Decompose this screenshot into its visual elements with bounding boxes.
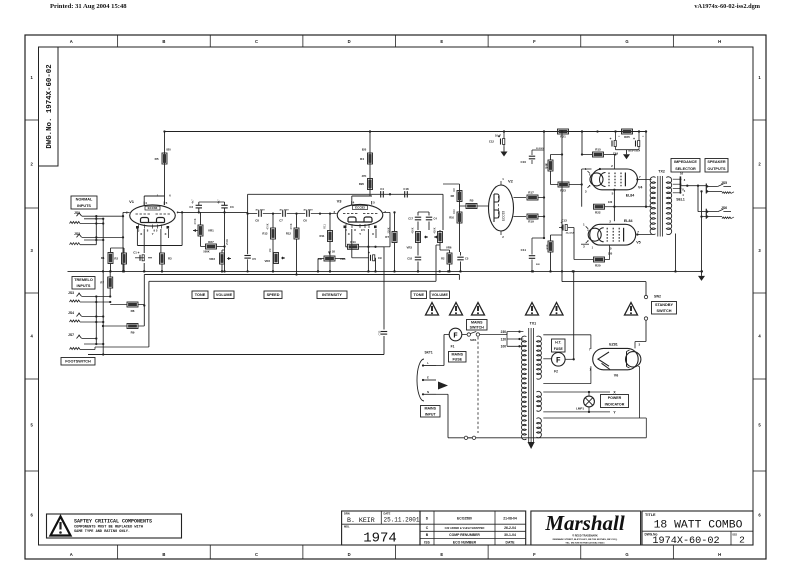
capacitor C9 (352, 251, 382, 272)
jack JS5 (706, 181, 734, 194)
speaker outputs label (705, 159, 728, 173)
wire V5 grid coupling (568, 228, 593, 260)
svg-text:V6: V6 (614, 374, 618, 378)
svg-text:COMPONENTS MUST BE REPLACED WI: COMPONENTS MUST BE REPLACED WITH (74, 526, 143, 530)
svg-text:R4: R4 (360, 157, 364, 161)
svg-text:C13: C13 (561, 219, 567, 223)
resistor R4 (360, 153, 372, 164)
resistor R11 (320, 212, 333, 272)
Marshall logo box (531, 511, 641, 545)
svg-text:250K: 250K (225, 239, 229, 245)
svg-text:SW2: SW2 (654, 295, 661, 299)
svg-text:E: E (427, 376, 429, 380)
resistor R5b grid stopper (460, 199, 489, 209)
svg-text:H.T.: H.T. (555, 340, 561, 344)
frame column reference letters (70, 35, 721, 559)
svg-text:470K: 470K (193, 218, 197, 224)
svg-text:R2: R2 (114, 257, 118, 261)
component value labels (157, 134, 685, 256)
svg-text:50V: 50V (536, 264, 540, 266)
wire secondary bus (143, 275, 459, 327)
mains input label (421, 406, 441, 418)
svg-text:SKT1: SKT1 (425, 351, 433, 355)
svg-text:D: D (348, 552, 351, 557)
svg-text:DATE: DATE (506, 540, 516, 544)
svg-text:C12: C12 (489, 140, 495, 144)
svg-text:INPUTS: INPUTS (77, 204, 91, 208)
wire HT to standby (562, 281, 646, 283)
svg-text:Y: Y (359, 232, 361, 236)
V1 cathode network wires (137, 211, 183, 253)
svg-text:DRN: DRN (344, 511, 350, 515)
svg-text:H: H (718, 39, 721, 44)
wire HT B+ rail (164, 131, 646, 133)
svg-text:R15: R15 (595, 148, 601, 152)
svg-text:R18: R18 (545, 163, 549, 168)
input bus wires (95, 212, 124, 355)
svg-text:E: E (440, 552, 443, 557)
svg-text:VR3: VR3 (407, 246, 413, 250)
valve V5 (583, 219, 641, 251)
resistor R13 (262, 214, 275, 273)
svg-text:G: G (625, 552, 628, 557)
svg-text:+: + (137, 251, 139, 255)
svg-text:100: 100 (501, 345, 507, 349)
svg-text:V5: V5 (636, 241, 640, 245)
wire ground bus (68, 270, 702, 272)
svg-text:JS7: JS7 (68, 333, 74, 337)
svg-text:EL84: EL84 (624, 219, 633, 223)
wire V4 plate to TX2 (636, 178, 651, 180)
svg-text:ECO2580: ECO2580 (457, 517, 472, 521)
resistor R25 (622, 129, 633, 139)
wire driver vertical (561, 130, 563, 281)
resistor R1 (101, 253, 113, 264)
svg-text:VR4: VR4 (340, 257, 346, 261)
pot VR1 (193, 212, 214, 246)
svg-text:X: X (372, 232, 374, 236)
svg-text:C4: C4 (380, 187, 384, 191)
wire screen rail (613, 189, 651, 222)
svg-text:STANDBY: STANDBY (655, 303, 674, 307)
impedance selector SEL1 (673, 172, 686, 202)
power indicator lamp LMP1 (576, 392, 594, 412)
frame row reference numbers (25, 75, 766, 518)
normal inputs label (71, 196, 97, 209)
resistor R24 (440, 250, 452, 273)
warning triangle 4 (526, 303, 539, 316)
svg-text:INPUTS: INPUTS (77, 284, 91, 288)
svg-text:30v 350V: 30v 350V (279, 209, 289, 211)
wire HT centre tap return (573, 270, 575, 360)
capacitor C11 (521, 238, 544, 273)
wire HT dropper (543, 130, 545, 239)
svg-text:C17: C17 (408, 217, 413, 221)
pot VR4 (317, 252, 346, 273)
svg-text:470K: 470K (289, 223, 293, 229)
valve V4 (585, 164, 643, 198)
wire TX1 CT to F2 (543, 358, 573, 361)
svg-text:H: H (718, 552, 721, 557)
capacitor C14 (609, 130, 616, 149)
svg-text:R19: R19 (528, 220, 534, 224)
resistor R23 (551, 182, 576, 193)
svg-text:SEL1: SEL1 (676, 198, 685, 202)
volume pot label (214, 291, 234, 299)
svg-text:DENMARK STREET, BLETCHLEY, MIL: DENMARK STREET, BLETCHLEY, MILTON KEYNES… (553, 538, 618, 541)
svg-text:450K: 450K (411, 227, 415, 233)
wire HT long vertical (581, 132, 583, 282)
svg-text:NORMAL: NORMAL (76, 198, 93, 202)
svg-text:1974X-60-02: 1974X-60-02 (652, 536, 719, 547)
svg-text:C5: C5 (252, 257, 256, 261)
svg-text:MAINS: MAINS (424, 407, 436, 411)
svg-text:ISS: ISS (733, 532, 738, 536)
pot VR3 (265, 253, 285, 264)
svg-text:INPUT: INPUT (425, 412, 437, 416)
svg-text:120: 120 (501, 337, 507, 341)
fuse F1 (444, 328, 462, 348)
capacitor C10 (520, 148, 544, 164)
jack JS2 (70, 232, 124, 245)
switch SW1 linkage (477, 337, 479, 433)
capacitor C8 (255, 209, 265, 222)
svg-text:VR6: VR6 (446, 246, 452, 250)
svg-text:9 5: 9 5 (154, 229, 158, 233)
svg-text:C5: C5 (465, 257, 469, 261)
mains switch label (467, 320, 488, 331)
svg-text:SW1: SW1 (470, 338, 477, 342)
power indicator label (601, 395, 629, 408)
svg-text:A: A (70, 552, 73, 557)
resistor R9 (102, 324, 144, 335)
svg-text:+: + (609, 137, 611, 141)
wire V4 grid (575, 168, 601, 207)
svg-text:ECC83: ECC83 (502, 211, 506, 222)
svg-text:R23: R23 (560, 189, 566, 193)
svg-text:R8: R8 (452, 188, 456, 192)
svg-text:R2: R2 (441, 257, 445, 261)
V1 plate coupling wires (177, 194, 390, 254)
svg-text:ECC83: ECC83 (355, 206, 365, 210)
jack JS4 (68, 311, 103, 322)
oscillator feed wires (443, 184, 460, 252)
warning triangle 2 (450, 303, 463, 316)
svg-text:SWITCH: SWITCH (657, 309, 672, 313)
svg-text:F2: F2 (554, 370, 558, 374)
svg-text:1M: 1M (268, 249, 272, 253)
svg-text:VOLUME: VOLUME (216, 293, 233, 297)
svg-text:47K: 47K (362, 174, 367, 178)
svg-text:SELECTOR: SELECTOR (675, 167, 696, 171)
svg-text:R7: R7 (385, 235, 389, 239)
resistor R22 (594, 204, 616, 214)
svg-text:F: F (453, 332, 458, 340)
transformer TX1 (522, 322, 542, 450)
valve V6 rectifier (589, 342, 641, 377)
svg-text:30 300V: 30 300V (536, 148, 545, 150)
svg-text:V4: V4 (638, 185, 642, 189)
svg-text:100uF 100uF: 100uF 100uF (628, 151, 641, 153)
mains fuse label (449, 352, 467, 363)
capacitor C14a (418, 212, 437, 230)
valve V1 (126, 199, 179, 233)
transformer TX2 (650, 170, 672, 237)
svg-text:B. KEIR: B. KEIR (347, 517, 375, 524)
capacitor C12 (489, 130, 508, 156)
jack JS6 (706, 206, 734, 219)
intensity pot label (317, 291, 347, 299)
mains wires (436, 335, 646, 438)
svg-text:F: F (533, 552, 536, 557)
wire V3 plate supply (352, 130, 372, 205)
wire TX1 HT top to anode (543, 335, 591, 349)
svg-text:TONE: TONE (195, 293, 206, 297)
resistor R27 (201, 240, 226, 249)
svg-text:SAFTEY CRITICAL COMPONENTS: SAFTEY CRITICAL COMPONENTS (74, 518, 152, 524)
svg-text:C1: C1 (133, 251, 137, 255)
tremolo input bus wires (95, 295, 111, 345)
svg-text:TITLE: TITLE (645, 513, 656, 517)
title box (642, 511, 753, 547)
svg-text:R12: R12 (286, 232, 292, 236)
tone pot label (192, 291, 208, 299)
speaker ground (698, 271, 705, 281)
svg-text:D: D (348, 39, 351, 44)
svg-text:R20: R20 (359, 182, 365, 186)
svg-text:INDICATOR: INDICATOR (605, 403, 625, 407)
svg-text:VOLUME: VOLUME (432, 293, 449, 297)
svg-text:VR2: VR2 (209, 257, 215, 261)
wire jack commons (698, 186, 707, 273)
svg-text:FOOTSWITCH: FOOTSWITCH (65, 360, 91, 364)
svg-text:EL84: EL84 (626, 194, 635, 198)
svg-text:VR1: VR1 (208, 229, 214, 233)
resistor R15 (581, 130, 616, 157)
svg-text:30-1-04: 30-1-04 (504, 533, 516, 537)
svg-text:N: N (427, 390, 429, 394)
resistor R18 (544, 155, 562, 185)
svg-text:F: F (556, 356, 561, 365)
svg-text:SPEAKER: SPEAKER (707, 160, 726, 164)
svg-text:25.11.2001: 25.11.2001 (384, 517, 420, 524)
valve V2 (489, 177, 514, 239)
svg-text:B: B (162, 552, 165, 557)
svg-text:LMP1: LMP1 (576, 407, 584, 411)
svg-text:470K: 470K (266, 223, 270, 229)
svg-text:R1: R1 (101, 256, 105, 260)
capacitor C5b (244, 256, 256, 273)
svg-text:2: 2 (739, 535, 745, 546)
svg-text:R21: R21 (560, 135, 566, 139)
svg-text:C22: C22 (378, 330, 382, 335)
wire V1 grid (123, 211, 130, 213)
svg-text:R3: R3 (168, 257, 172, 261)
footswitch label (61, 358, 95, 366)
svg-text:JS3: JS3 (68, 291, 74, 295)
capacitor C1 (133, 251, 144, 261)
capacitor C5 (457, 252, 469, 273)
svg-text:FUSE: FUSE (554, 347, 564, 351)
svg-text:A: A (70, 39, 73, 44)
header filename (694, 3, 760, 10)
svg-text:JS4: JS4 (68, 311, 74, 315)
svg-text:® REGD TRADEMARK: ® REGD TRADEMARK (572, 535, 598, 538)
svg-text:R25: R25 (624, 135, 630, 139)
capacitor C18b (407, 243, 421, 273)
heater line X (543, 391, 616, 395)
capacitor C17 (408, 212, 421, 230)
svg-text:C4: C4 (434, 217, 438, 221)
wire V2 plates (514, 198, 527, 217)
resistor R3 (160, 253, 173, 264)
B+ rail junction dots (369, 130, 647, 132)
svg-text:450K: 450K (433, 227, 437, 233)
svg-text:4n7: 4n7 (191, 199, 195, 204)
wire footswitch line (88, 247, 384, 355)
standby switch SW2 (635, 282, 661, 349)
warning triangle 1 (426, 303, 439, 316)
svg-text:C: C (255, 552, 258, 557)
svg-text:21-08-04: 21-08-04 (503, 517, 517, 521)
svg-text:4n7: 4n7 (217, 199, 221, 204)
svg-text:C18: C18 (407, 257, 412, 261)
DWG number box (39, 47, 59, 166)
resistor R6 (110, 302, 144, 313)
ground bus junction dots (102, 270, 703, 272)
capacitor C15 (633, 130, 640, 149)
svg-text:F1: F1 (451, 345, 455, 349)
wire TX2 secondary bottom (674, 234, 676, 273)
resistor R2 (114, 253, 126, 264)
svg-text:EZ81: EZ81 (609, 342, 618, 346)
resistor R20 (594, 246, 610, 268)
svg-text:R22: R22 (595, 211, 601, 215)
standby switch label (652, 302, 677, 315)
resistor R14 (346, 240, 384, 250)
svg-text:C10: C10 (520, 160, 526, 164)
svg-text:SAME TYPE AND RATING ONLY.: SAME TYPE AND RATING ONLY. (74, 530, 130, 534)
svg-text:R19: R19 (545, 244, 549, 249)
jack JS7 (68, 333, 103, 350)
capacitor C7 (279, 209, 289, 222)
svg-text:X: X (140, 232, 142, 236)
V3 cathode network wires (346, 212, 390, 253)
svg-text:26-2-04: 26-2-04 (504, 526, 516, 530)
volume2 pot label (430, 291, 450, 299)
wire TX2 centre tap (645, 130, 647, 206)
svg-text:ISS: ISS (424, 540, 430, 544)
warning triangle 3 (472, 303, 485, 316)
svg-text:9 5: 9 5 (361, 228, 365, 232)
header printed date (50, 3, 127, 10)
svg-text:C6: C6 (303, 218, 307, 222)
svg-text:VR3: VR3 (265, 259, 271, 263)
svg-text:C11: C11 (521, 248, 527, 252)
svg-text:X: X (164, 232, 166, 236)
svg-text:+: + (633, 137, 635, 141)
V1 cathode component wires (109, 248, 163, 273)
wire V1 plate supply (144, 130, 165, 205)
capacitor C13 (559, 219, 575, 235)
tone2 pot label (411, 291, 427, 299)
svg-text:R9: R9 (131, 331, 135, 335)
svg-text:C9: C9 (378, 256, 382, 260)
safety warning box (47, 514, 182, 538)
svg-text:ECO NUMBER: ECO NUMBER (453, 540, 477, 544)
wire V5 heater stub (581, 244, 594, 249)
svg-text:R10: R10 (449, 216, 454, 220)
mains connector SKT1 (417, 351, 448, 402)
svg-text:250K: 250K (387, 227, 391, 233)
resistor R5 plate (155, 153, 167, 164)
svg-text:230: 230 (501, 330, 507, 334)
resistor R21 (558, 129, 569, 139)
svg-text:R13: R13 (262, 232, 268, 236)
heater line Y (543, 410, 616, 414)
svg-text:C2: C2 (189, 205, 193, 209)
svg-text:TREMELO: TREMELO (74, 278, 93, 282)
svg-text:1974: 1974 (363, 531, 397, 547)
svg-text:MAINS: MAINS (451, 352, 463, 356)
svg-text:POWER: POWER (608, 396, 622, 400)
svg-text:R27: R27 (208, 240, 214, 244)
svg-text:E: E (440, 39, 443, 44)
svg-text:DATE: DATE (384, 511, 391, 515)
pot VR6 (434, 230, 452, 250)
svg-text:Marshall: Marshall (544, 511, 625, 535)
resistor R17 (527, 191, 545, 201)
svg-text:130: 130 (608, 252, 613, 256)
svg-text:820: 820 (362, 148, 367, 152)
svg-text:130: 130 (608, 200, 613, 204)
svg-text:R8: R8 (451, 194, 455, 198)
impedance selector label (671, 159, 700, 173)
svg-text:16uF: 16uF (495, 134, 501, 138)
tremelo inputs label (72, 277, 95, 290)
svg-text:OUTPUTS: OUTPUTS (707, 167, 726, 171)
svg-text:G: G (625, 39, 628, 44)
resistor R10b (449, 212, 462, 223)
svg-text:TEL: MILTON KEYNES (01908) 375: TEL: MILTON KEYNES (01908) 375411 (565, 541, 605, 544)
svg-text:R11: R11 (323, 224, 327, 229)
resistor R19 (527, 214, 545, 224)
svg-text:SPEED: SPEED (267, 293, 280, 297)
valve V3 (334, 199, 387, 233)
fuse F2 (552, 353, 566, 374)
TX1 primary taps (501, 330, 524, 349)
svg-text:18 WATT COMBO: 18 WATT COMBO (654, 520, 743, 532)
svg-text:C7: C7 (279, 218, 283, 222)
capacitor C22 (378, 330, 388, 335)
svg-text:R7: R7 (100, 281, 104, 285)
resistor R7 (100, 271, 112, 296)
svg-text:SWITCH: SWITCH (470, 326, 485, 330)
svg-text:COMP RENUMBER: COMP RENUMBER (449, 533, 480, 537)
svg-text:R11: R11 (320, 234, 325, 238)
row junction dots (272, 212, 321, 214)
svg-text:ECC83: ECC83 (148, 206, 158, 210)
resistor R12 (286, 214, 299, 276)
svg-text:R14: R14 (350, 240, 356, 244)
svg-text:C18: C18 (403, 187, 409, 191)
svg-text:R17: R17 (528, 191, 534, 195)
svg-text:MAINS: MAINS (471, 320, 483, 324)
capacitor C6 (303, 209, 313, 222)
jack JS3 (68, 291, 110, 302)
wire V5 plate to TX2 (636, 233, 651, 235)
coupling row wire (248, 213, 337, 215)
